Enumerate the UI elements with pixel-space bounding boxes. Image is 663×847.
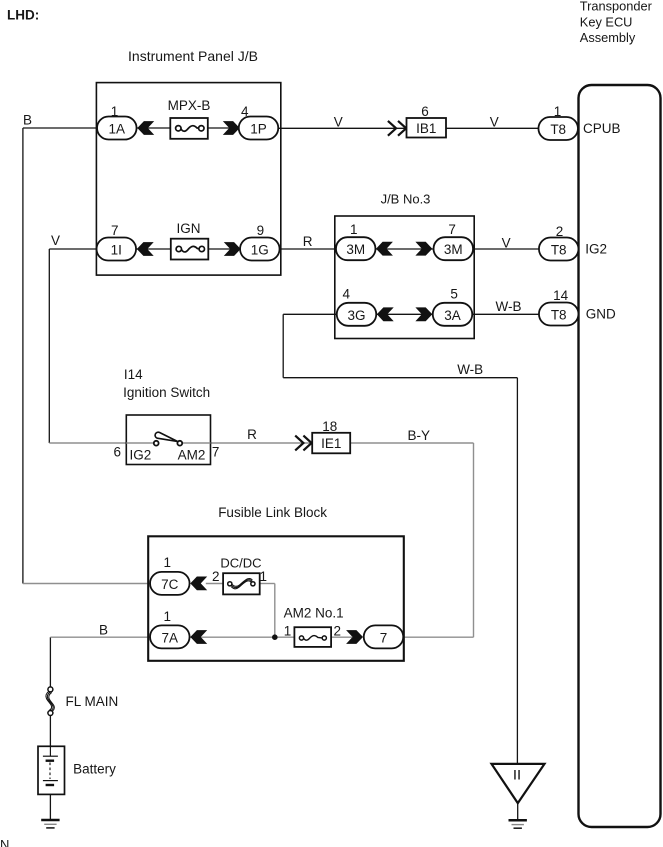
svg-text:9: 9 — [257, 223, 265, 238]
svg-text:7: 7 — [380, 630, 388, 645]
svg-text:B: B — [99, 623, 108, 638]
svg-text:7: 7 — [212, 445, 220, 460]
svg-text:IG2: IG2 — [585, 242, 607, 257]
svg-text:7C: 7C — [161, 577, 179, 592]
svg-text:GND: GND — [586, 307, 616, 322]
svg-text:3M: 3M — [346, 242, 365, 257]
svg-text:6: 6 — [114, 445, 122, 460]
svg-text:14: 14 — [553, 288, 569, 303]
svg-text:T8: T8 — [551, 308, 567, 323]
svg-text:Transponder: Transponder — [580, 0, 653, 14]
svg-text:R: R — [303, 234, 313, 249]
svg-text:1: 1 — [163, 555, 171, 570]
svg-text:B: B — [23, 112, 32, 127]
svg-text:V: V — [490, 115, 499, 130]
svg-text:2: 2 — [334, 624, 342, 639]
svg-text:V: V — [334, 115, 343, 130]
svg-text:W-B: W-B — [457, 362, 483, 377]
svg-text:1: 1 — [260, 569, 268, 584]
svg-text:IG2: IG2 — [130, 448, 152, 463]
svg-text:V: V — [51, 233, 60, 248]
svg-text:MPX-B: MPX-B — [168, 98, 211, 113]
svg-text:N: N — [0, 837, 9, 847]
svg-text:AM2: AM2 — [178, 448, 206, 463]
svg-text:1: 1 — [163, 609, 171, 624]
svg-text:1I: 1I — [111, 243, 122, 258]
svg-text:18: 18 — [322, 419, 337, 434]
svg-text:R: R — [247, 427, 257, 442]
svg-text:IE1: IE1 — [321, 436, 341, 451]
svg-text:3G: 3G — [347, 308, 365, 323]
svg-text:1: 1 — [350, 222, 358, 237]
svg-text:AM2 No.1: AM2 No.1 — [284, 606, 344, 621]
svg-text:1G: 1G — [251, 243, 269, 258]
svg-text:T8: T8 — [550, 122, 566, 137]
svg-text:DC/DC: DC/DC — [220, 556, 261, 571]
svg-text:7: 7 — [448, 222, 456, 237]
svg-text:1: 1 — [284, 624, 292, 639]
svg-text:I14: I14 — [124, 367, 143, 382]
svg-text:Battery: Battery — [73, 762, 116, 777]
svg-text:Key ECU: Key ECU — [580, 14, 633, 29]
svg-text:2: 2 — [556, 224, 564, 239]
svg-text:IGN: IGN — [176, 221, 200, 236]
svg-text:T8: T8 — [551, 243, 567, 258]
svg-text:B-Y: B-Y — [408, 428, 431, 443]
svg-text:1P: 1P — [250, 122, 267, 137]
svg-text:7A: 7A — [162, 630, 179, 645]
svg-text:IB1: IB1 — [416, 121, 436, 136]
svg-text:Instrument Panel J/B: Instrument Panel J/B — [128, 48, 258, 64]
svg-text:Fusible Link Block: Fusible Link Block — [218, 505, 327, 520]
svg-text:1: 1 — [111, 104, 119, 119]
svg-text:J/B No.3: J/B No.3 — [381, 191, 431, 206]
svg-text:6: 6 — [421, 104, 429, 119]
svg-text:Assembly: Assembly — [580, 30, 636, 45]
svg-text:4: 4 — [342, 286, 350, 301]
svg-text:2: 2 — [212, 569, 220, 584]
svg-text:7: 7 — [111, 223, 119, 238]
svg-text:FL MAIN: FL MAIN — [66, 694, 119, 709]
svg-text:Ignition Switch: Ignition Switch — [123, 385, 210, 400]
svg-text:V: V — [502, 236, 511, 251]
svg-text:5: 5 — [450, 286, 458, 301]
svg-text:4: 4 — [241, 104, 249, 119]
svg-text:3M: 3M — [444, 242, 463, 257]
svg-text:1: 1 — [554, 104, 562, 119]
svg-text:W-B: W-B — [496, 299, 522, 314]
svg-text:LHD:: LHD: — [7, 8, 39, 23]
svg-text:1A: 1A — [109, 122, 126, 137]
svg-text:3A: 3A — [444, 308, 461, 323]
svg-text:CPUB: CPUB — [583, 121, 621, 136]
